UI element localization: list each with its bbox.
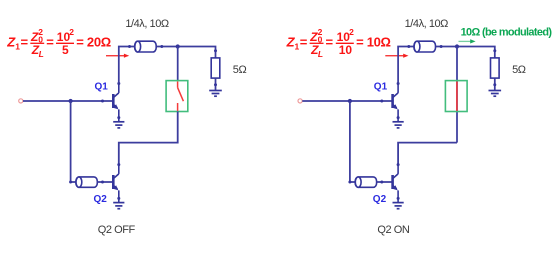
wire Q1' collector up to TL1' — [398, 47, 414, 84]
port P2 (input) — [298, 99, 302, 103]
pin dot Q1 emitter — [117, 116, 120, 119]
transistor Q1' — [393, 84, 399, 118]
pin dot Q1 collector — [117, 82, 120, 85]
pin dot TL1 left — [128, 45, 131, 48]
switch box (green) — [166, 81, 188, 112]
wire node down through switch box (closed) — [456, 47, 458, 143]
pin dot R1' top — [493, 49, 496, 52]
pin dot Q2 base — [101, 181, 104, 184]
pin dot TL1' right — [440, 45, 443, 48]
svg-text:10Ω (be modulated): 10Ω (be modulated) — [461, 27, 553, 39]
pin dot R1 top — [214, 49, 217, 52]
transmission line TL2 (1/4-wave) — [76, 177, 97, 187]
pin dot Q2 collector — [117, 163, 120, 166]
pin dot Q1' emitter — [397, 116, 400, 119]
svg-text:=: = — [300, 35, 308, 50]
svg-text:2: 2 — [69, 27, 74, 37]
svg-text:= 20Ω: = 20Ω — [76, 35, 111, 50]
pin dot TL1' left — [407, 45, 410, 48]
switch S2 closed (red line) — [456, 82, 458, 111]
svg-text:10: 10 — [339, 43, 353, 57]
svg-text:1/4λ, 10Ω: 1/4λ, 10Ω — [405, 18, 449, 30]
svg-text:1: 1 — [295, 42, 300, 52]
svg-text:1/4λ, 10Ω: 1/4λ, 10Ω — [125, 18, 169, 30]
wire TL2 to Q2 base — [97, 181, 113, 183]
transmission line TL1' — [414, 41, 436, 52]
pin dot Q2' base — [380, 181, 383, 184]
switch box (green, right) — [445, 81, 467, 112]
junction node dot top (right) — [455, 44, 459, 48]
pin dot TL2' left — [348, 181, 351, 184]
pin dot Q1' collector — [397, 82, 400, 85]
red current arrow at Q1' collector — [385, 54, 408, 58]
svg-text:L: L — [318, 49, 323, 59]
wire TL2' to Q2' base — [377, 181, 393, 183]
wire switch box to Q2' collector — [398, 143, 457, 165]
green arrow (modulated impedance) — [459, 39, 476, 43]
transistor Q1 — [113, 84, 119, 118]
svg-text:= 10Ω: = 10Ω — [356, 35, 391, 50]
svg-text:=: = — [46, 35, 54, 50]
ground below Q2 emitter — [113, 198, 124, 208]
wire TL1' to node and resistor R1' — [436, 47, 495, 58]
svg-text:Q1: Q1 — [95, 82, 109, 93]
port P1 (input) — [19, 99, 23, 103]
svg-text:Q2 OFF: Q2 OFF — [98, 224, 136, 236]
svg-text:5Ω: 5Ω — [512, 64, 526, 76]
svg-text:Q2 ON: Q2 ON — [377, 224, 409, 236]
svg-text:1: 1 — [15, 42, 20, 52]
resistor R1' 5 Ohm — [491, 58, 500, 78]
wire node down to switch box — [177, 47, 179, 82]
wire port to Q1 base — [23, 100, 113, 102]
wire R1 to ground — [215, 78, 217, 90]
wire switch box to Q2 collector — [119, 112, 178, 165]
ground below R1' — [489, 91, 502, 97]
junction node dot top — [176, 44, 180, 48]
transmission line TL2' — [355, 177, 376, 187]
svg-text:Q2: Q2 — [373, 194, 387, 205]
red current arrow at Q1 collector — [106, 54, 129, 58]
svg-text:Q1: Q1 — [374, 82, 388, 93]
resistor R1 5 Ohm — [211, 58, 220, 78]
junction dot input node — [69, 99, 73, 103]
wire input node down to TL2' — [350, 101, 355, 182]
svg-text:5: 5 — [62, 43, 69, 57]
pin dot Q2' emitter — [397, 197, 400, 200]
wire R1' to ground — [494, 78, 496, 90]
transistor Q2' — [393, 165, 399, 199]
wire port to Q1' base — [302, 100, 392, 102]
svg-text:2: 2 — [349, 27, 354, 37]
wire input node down to TL2 — [71, 101, 76, 182]
svg-text:5Ω: 5Ω — [233, 64, 247, 76]
svg-text:=: = — [326, 35, 334, 50]
junction dot input node (right) — [348, 99, 352, 103]
wire Q1 collector up to TL1 — [119, 47, 135, 84]
svg-text:Q2: Q2 — [94, 194, 108, 205]
svg-text:=: = — [21, 35, 29, 50]
switch S1 open (red) — [178, 82, 184, 111]
pin dot Q1' base — [380, 100, 383, 103]
wire TL1 to node and resistor — [156, 47, 215, 58]
pin dot Q2' collector — [397, 163, 400, 166]
ground below Q2' emitter — [393, 198, 404, 208]
ground below Q1 emitter — [113, 118, 124, 128]
formula Z1 = Z0^2/ZL = 10^2/10 = 10 Ohm — [286, 27, 391, 59]
transistor Q2 — [113, 165, 119, 199]
pin dot Q1 base — [101, 100, 104, 103]
pin dot TL1 right — [160, 45, 163, 48]
ground below Q1' emitter — [393, 118, 404, 128]
ground below R1 — [209, 91, 222, 97]
pin dot R1 bottom — [214, 83, 217, 86]
svg-text:L: L — [39, 49, 44, 59]
formula Z1 = Z0^2/ZL = 10^2/5 = 20 Ohm — [6, 27, 111, 59]
transmission line TL1 (1/4-wave, 10 Ohm) — [135, 41, 157, 52]
pin dot Q2 emitter — [117, 197, 120, 200]
pin dot TL2 left — [69, 181, 72, 184]
pin dot R1' bottom — [493, 83, 496, 86]
